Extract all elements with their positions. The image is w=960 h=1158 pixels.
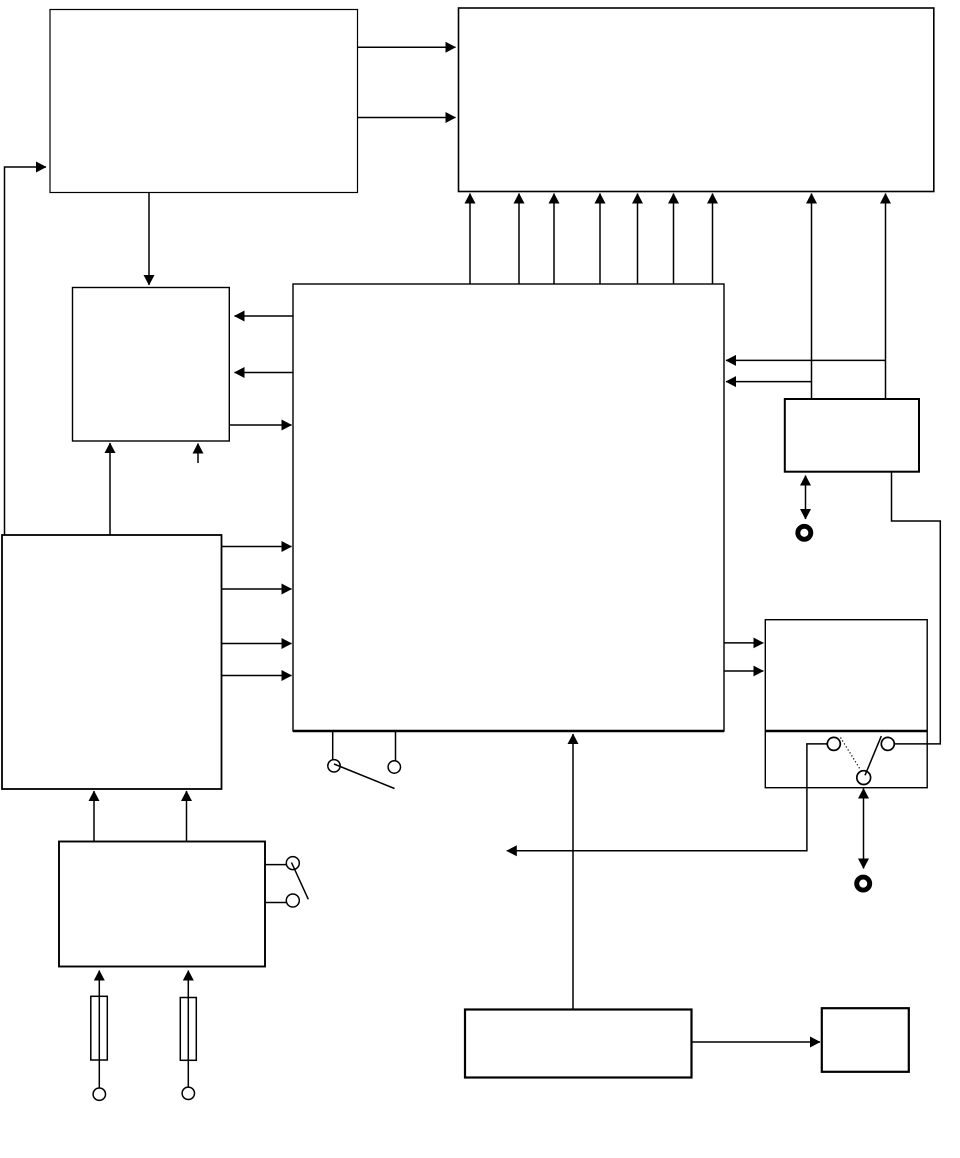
thick divider in block H <box>765 730 927 733</box>
fuse FU1 body <box>91 996 108 1060</box>
switch S1 left terminal <box>328 760 340 772</box>
fuse FU2 terminal <box>182 1087 194 1099</box>
feedback wire E top to A left <box>5 167 47 535</box>
wire D top to B 2 <box>518 194 520 285</box>
wire D top to B 4 <box>599 194 601 285</box>
terminal ring below H <box>857 877 870 890</box>
wire D top to B 7 <box>712 194 714 285</box>
wire C to D <box>229 424 291 426</box>
fuse FU1 lead and arrow into F <box>98 971 100 1089</box>
block G right-middle small <box>785 399 919 472</box>
wire A to B upper <box>358 46 456 48</box>
wire A bottom to C top <box>148 193 150 286</box>
relay contact left terminal <box>827 737 840 750</box>
stub arrow into C bottom right <box>197 444 199 464</box>
wire D top to B 1 <box>469 194 471 285</box>
relay lever <box>865 736 881 775</box>
wire D to C lower <box>235 372 294 374</box>
wire I top to D bottom <box>572 734 574 1010</box>
wire E to D 1 <box>222 546 292 548</box>
block B top-right <box>459 8 934 192</box>
double arrow below H lower half <box>863 828 865 869</box>
block H relay box right <box>765 620 927 788</box>
block D central <box>293 284 724 731</box>
relay contact right terminal <box>881 737 894 750</box>
block J bottom-right <box>822 1008 909 1072</box>
block C left-middle <box>73 288 230 442</box>
wire I to J <box>692 1041 821 1043</box>
thick bus line along bottom of block D <box>293 730 724 732</box>
switch S2 on F: upper stub <box>265 864 286 866</box>
switch S2 lever <box>292 863 309 900</box>
wire D to C upper <box>235 315 294 317</box>
wire E to D 3 <box>222 643 292 645</box>
double arrow below G upper half <box>805 476 807 498</box>
fuse FU2 lead and arrow into F <box>187 971 189 1088</box>
wire from relay right contact up to G bottom <box>892 473 941 744</box>
fuse FU2 body <box>180 998 196 1061</box>
wire G to B left <box>811 194 813 400</box>
wire D to H lower <box>724 670 763 672</box>
wire into D right upper <box>726 359 886 361</box>
wire A to B lower <box>358 117 456 119</box>
terminal ring below G <box>798 526 811 539</box>
wire D to H upper <box>724 642 763 644</box>
wire G to B right <box>885 194 887 400</box>
double arrow below G lower half <box>805 497 807 519</box>
switch S1 lever <box>334 764 395 789</box>
block A top-left <box>50 10 358 193</box>
wire D top to B 5 <box>637 194 639 285</box>
wire D top to B 6 <box>673 194 675 285</box>
switch S2 upper terminal <box>286 857 299 870</box>
switch S2 lower terminal <box>286 894 299 907</box>
switch S1 right terminal <box>388 761 400 773</box>
block F bottom-left <box>59 842 265 967</box>
relay dotted actuate line <box>841 738 862 772</box>
wire E top to C bottom left stub <box>109 443 111 535</box>
wire into D right lower <box>726 381 811 383</box>
switch S1 right stub <box>395 731 397 761</box>
fuse FU1 terminal <box>93 1088 105 1100</box>
switch S2 lower stub <box>265 902 286 904</box>
wire F to E left <box>93 791 95 842</box>
wire E to D 4 <box>222 675 292 677</box>
switch S1 below D: left stub <box>332 731 334 760</box>
double arrow below H upper half <box>863 789 865 829</box>
block E left tall <box>2 535 222 789</box>
wire D top to B 3 <box>553 194 555 285</box>
wire E to D 2 <box>222 588 292 590</box>
wire from relay left contact down and left arrow <box>507 744 828 851</box>
relay common terminal <box>857 771 871 785</box>
block I bottom-center <box>465 1010 692 1078</box>
wire F to E right <box>186 791 188 842</box>
